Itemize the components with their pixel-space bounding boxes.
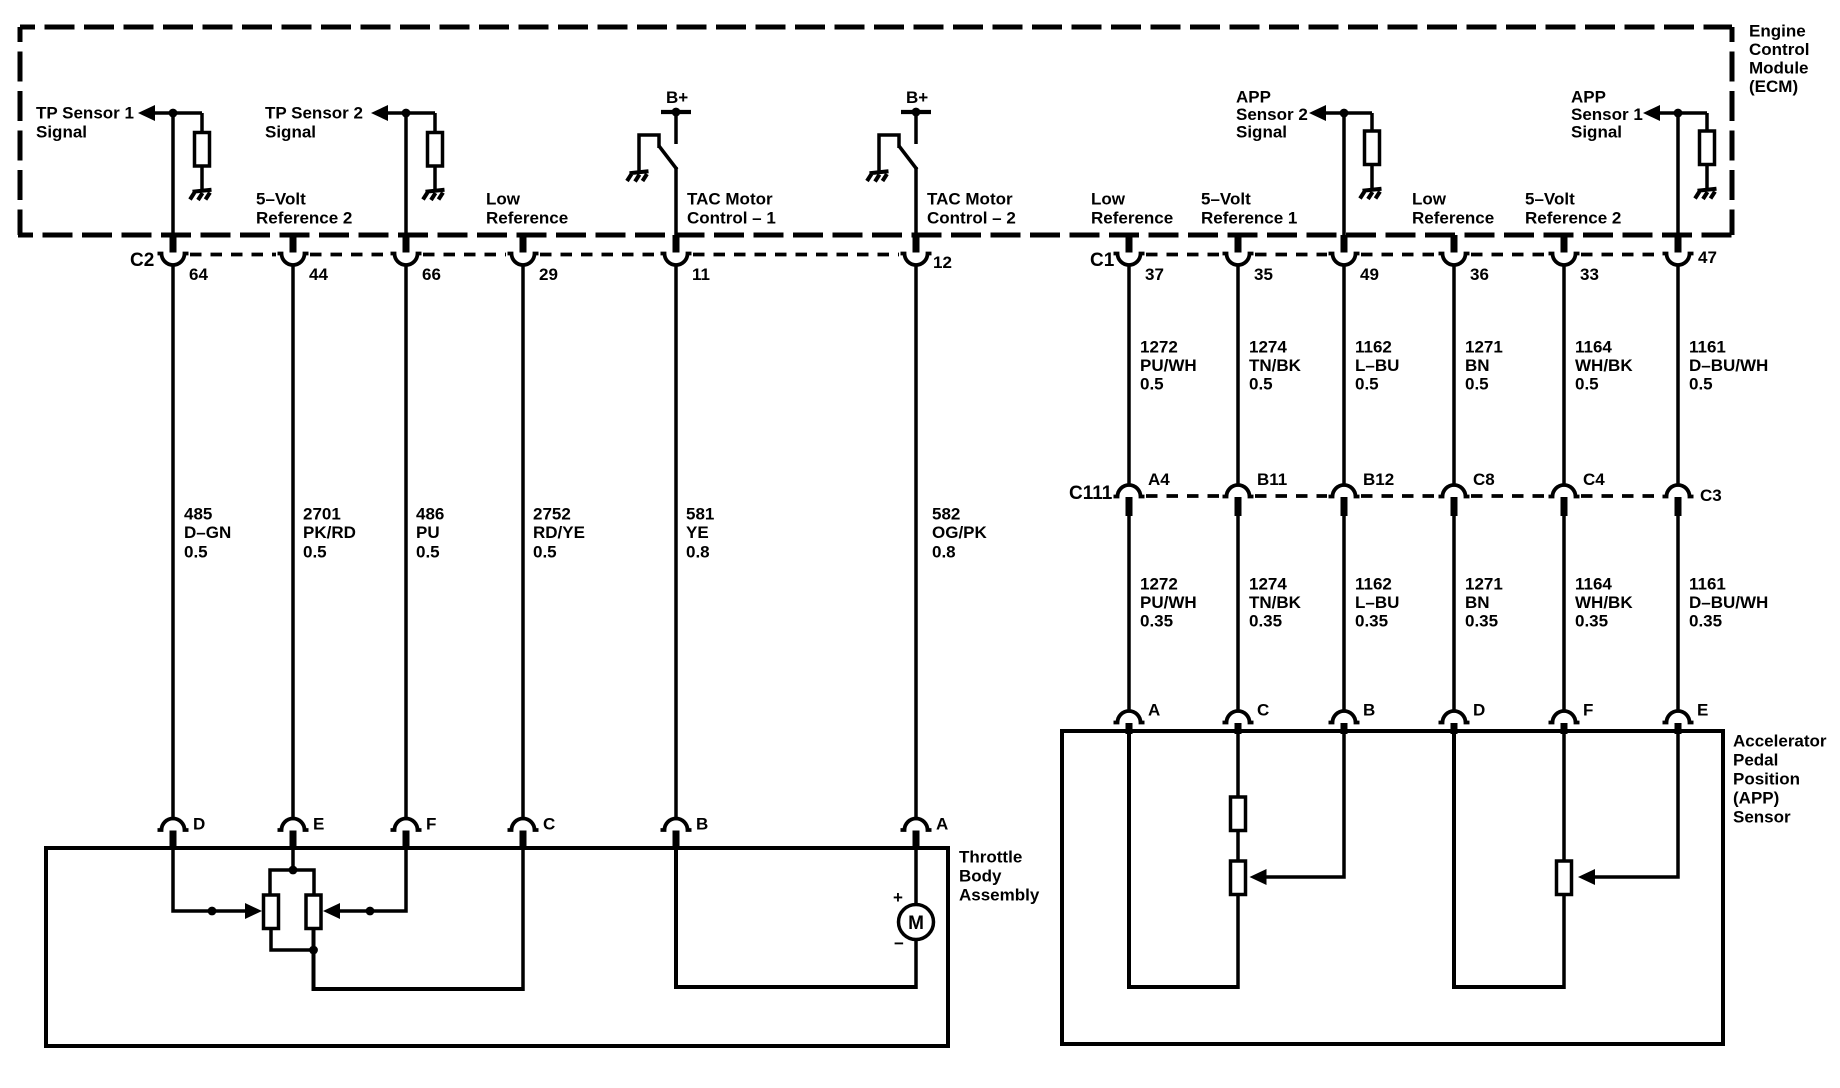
- connector C111 terminal stub pin B11: [1235, 497, 1242, 516]
- value label wire 581 YE: [686, 505, 714, 562]
- wire APP2 signal horizontal: [1326, 111, 1372, 115]
- svg-text:Sensor 1: Sensor 1: [1571, 105, 1643, 124]
- wire 582 OG/PK harness: [914, 264, 918, 820]
- wire APP track2 to bottom: [1562, 895, 1566, 990]
- throttle body terminal arc pin F: [391, 819, 422, 831]
- svg-text:+: +: [893, 888, 903, 907]
- svg-text:Reference: Reference: [1412, 209, 1494, 228]
- wire APP pin D to pot2 bottom: [1454, 733, 1564, 987]
- svg-text:B: B: [1363, 701, 1375, 720]
- value label wire 1162 L&#8211;BU 0.35: [1355, 575, 1399, 631]
- svg-text:F: F: [426, 815, 436, 834]
- wire connector C111 dotted harness segment 2: [1255, 494, 1327, 498]
- svg-text:0.35: 0.35: [1140, 612, 1173, 631]
- connector C2 terminal arc pin 44: [278, 254, 309, 266]
- wire APP1 resistor top bend: [1705, 113, 1709, 133]
- svg-text:Reference 2: Reference 2: [1525, 209, 1621, 228]
- wire connector C111 dotted harness segment 4: [1471, 494, 1547, 498]
- wire 1164 WH/BK lower harness: [1562, 515, 1566, 712]
- wire APP pin B to wiper: [1267, 733, 1345, 877]
- ground APP1: [1695, 189, 1717, 199]
- svg-text:TAC Motor: TAC Motor: [927, 190, 1013, 209]
- wire 1161 D-BU/WH upper harness: [1676, 264, 1680, 487]
- svg-text:(ECM): (ECM): [1749, 77, 1798, 96]
- wire switch 1 to ground: [639, 135, 659, 172]
- connector C2 terminal arc pin 66: [391, 254, 422, 266]
- label Accelerator Pedal Position (APP) Sensor: [1733, 732, 1827, 827]
- value label wire 2752 RD/YE: [533, 505, 585, 562]
- label APP Sensor 2 Signal: [1236, 88, 1308, 142]
- svg-text:0.5: 0.5: [416, 543, 440, 562]
- wire connector C2 dotted harness segment 4: [540, 253, 659, 257]
- value label wire 485 D&#8211;GN: [184, 505, 231, 562]
- svg-text:Signal: Signal: [265, 123, 316, 142]
- svg-text:BN: BN: [1465, 593, 1490, 612]
- throttle body terminal arc pin B: [661, 819, 692, 831]
- connector C111 terminal stub pin C8: [1451, 497, 1458, 516]
- label Engine Control Module (ECM): [1749, 22, 1809, 97]
- wire APP pin C down: [1236, 733, 1240, 798]
- resistor TP sensor 1 track: [264, 895, 279, 929]
- value label wire 1272 PU/WH 0.35: [1140, 575, 1197, 631]
- throttle body assembly box: [46, 848, 948, 1046]
- svg-text:B+: B+: [906, 88, 928, 107]
- wire connector C111 dotted harness segment 5: [1581, 494, 1661, 498]
- svg-text:F: F: [1583, 701, 1593, 720]
- svg-text:0.35: 0.35: [1355, 612, 1388, 631]
- svg-text:36: 36: [1470, 265, 1489, 284]
- svg-text:1161: 1161: [1689, 575, 1726, 594]
- svg-text:D–GN: D–GN: [184, 523, 231, 542]
- connector C1 terminal stub pin 35: [1235, 235, 1242, 253]
- connector C111 terminal stub pin C3: [1675, 497, 1682, 516]
- wire pot bottom to pin C: [314, 928, 524, 989]
- resistor APP sensor track 2: [1557, 861, 1572, 895]
- ground TAC driver 2: [867, 171, 889, 181]
- svg-text:RD/YE: RD/YE: [533, 523, 585, 542]
- svg-text:C111: C111: [1069, 483, 1113, 504]
- svg-text:0.5: 0.5: [1140, 375, 1164, 394]
- value label wire 1271 BN 0.5: [1465, 338, 1503, 394]
- ground TAC driver 1: [627, 171, 649, 181]
- connector C111 terminal stub pin B12: [1341, 497, 1348, 516]
- svg-text:Sensor 2: Sensor 2: [1236, 105, 1308, 124]
- svg-text:1272: 1272: [1140, 338, 1178, 357]
- wire pot top bracket: [270, 870, 314, 896]
- svg-text:581: 581: [686, 505, 714, 524]
- label 5-Volt Reference 1 (pin 35): [1201, 190, 1297, 228]
- wire APP1 signal horizontal: [1660, 111, 1707, 115]
- svg-text:1272: 1272: [1140, 575, 1178, 594]
- wire APP2 resistor to ground: [1370, 165, 1374, 191]
- node junction pot bottom: [309, 946, 318, 955]
- svg-text:Control: Control: [1749, 40, 1809, 59]
- resistor TP2 pull-down: [428, 133, 443, 167]
- wire between APP resistors: [1236, 831, 1240, 863]
- wire 1274 TN/BK upper harness: [1236, 264, 1240, 487]
- throttle body terminal stub pin A: [913, 831, 920, 851]
- svg-text:C3: C3: [1700, 486, 1722, 505]
- APP sensor terminal stub pin F: [1561, 723, 1568, 734]
- svg-text:−: −: [894, 934, 904, 953]
- svg-text:1164: 1164: [1575, 338, 1612, 357]
- value label wire 1272 PU/WH 0.5: [1140, 338, 1197, 394]
- wire pot bottom bracket: [271, 927, 314, 950]
- svg-text:5–Volt: 5–Volt: [1201, 190, 1251, 209]
- APP sensor terminal stub pin D: [1451, 723, 1458, 734]
- wire B+ stub 2: [914, 112, 918, 144]
- wire connector C2 dotted harness segment 3: [423, 253, 506, 257]
- node junction E pot top: [289, 866, 298, 875]
- connector C1 terminal stub pin 33: [1561, 235, 1568, 253]
- value label wire 2701 PK/RD: [303, 505, 356, 562]
- wire 581 inside ECM: [674, 167, 678, 236]
- wire connector C111 dotted harness segment 3: [1361, 494, 1437, 498]
- svg-text:49: 49: [1360, 265, 1379, 284]
- svg-text:APP: APP: [1571, 88, 1606, 107]
- svg-text:1271: 1271: [1465, 575, 1503, 594]
- svg-text:PU/WH: PU/WH: [1140, 593, 1197, 612]
- svg-text:0.5: 0.5: [1575, 375, 1599, 394]
- throttle body terminal stub pin D: [170, 831, 177, 851]
- svg-text:Reference 1: Reference 1: [1201, 209, 1297, 228]
- wire 1162 inside ECM: [1342, 113, 1346, 236]
- svg-text:A: A: [1148, 701, 1160, 720]
- svg-text:M: M: [908, 913, 924, 934]
- APP sensor terminal stub pin B: [1341, 723, 1348, 734]
- wire 1272 PU/WH lower harness: [1127, 515, 1131, 712]
- value label wire 582 OG/PK: [932, 505, 988, 562]
- svg-text:Low: Low: [486, 190, 521, 209]
- value label wire 1274 TN/BK 0.5: [1249, 338, 1302, 394]
- APP sensor terminal arc pin C: [1223, 711, 1254, 723]
- svg-text:Signal: Signal: [36, 123, 87, 142]
- svg-text:2701: 2701: [303, 505, 341, 524]
- wire APP1 resistor to ground: [1705, 165, 1709, 191]
- svg-text:0.5: 0.5: [1689, 375, 1713, 394]
- wire connector C1 dotted harness segment 5: [1581, 253, 1661, 257]
- svg-text:A4: A4: [1148, 470, 1170, 489]
- svg-text:66: 66: [422, 265, 441, 284]
- svg-text:C: C: [1257, 701, 1269, 720]
- node B+ dot 2: [912, 108, 921, 117]
- connector C2 terminal arc pin 64: [158, 254, 189, 265]
- wire 2701 PK/RD harness: [291, 264, 295, 820]
- svg-text:D–BU/WH: D–BU/WH: [1689, 593, 1768, 612]
- connector C2 terminal stub pin 64: [170, 235, 177, 253]
- svg-text:Body: Body: [959, 867, 1002, 886]
- svg-text:C2: C2: [130, 250, 154, 271]
- arrow APP Sensor 2 Signal: [1309, 105, 1326, 121]
- APP sensor terminal stub pin A: [1126, 723, 1133, 734]
- connector C1 terminal stub pin 37: [1126, 235, 1133, 253]
- wire 485 D-GN harness: [171, 264, 175, 820]
- svg-text:Low: Low: [1091, 190, 1126, 209]
- ECM box dashed bottom border: [18, 233, 1734, 238]
- svg-text:0.5: 0.5: [1249, 375, 1273, 394]
- connector C1 terminal arc pin 33: [1549, 254, 1580, 266]
- ECM box dashed left border: [18, 27, 23, 235]
- svg-text:2752: 2752: [533, 505, 571, 524]
- connector C2 terminal arc pin 11: [661, 254, 692, 266]
- resistor TP1 pull-down: [195, 133, 210, 167]
- svg-text:TP Sensor 1: TP Sensor 1: [36, 104, 134, 123]
- connector C111 terminal arc pin C8: [1439, 485, 1470, 497]
- node splice on F wiper wire: [366, 907, 375, 916]
- svg-text:L–BU: L–BU: [1355, 593, 1399, 612]
- svg-text:Sensor: Sensor: [1733, 808, 1791, 827]
- svg-text:(APP): (APP): [1733, 789, 1779, 808]
- svg-text:C: C: [543, 815, 555, 834]
- connector C111 terminal arc pin A4: [1114, 485, 1145, 497]
- label Low Reference (pin 36): [1412, 190, 1494, 228]
- APP sensor terminal arc pin B: [1329, 711, 1360, 723]
- wire TP2 resistor top bend: [433, 113, 437, 134]
- wire TP1 resistor top bend: [200, 113, 204, 134]
- label Throttle Body Assembly: [959, 848, 1040, 905]
- wire 581 YE harness: [674, 264, 678, 820]
- ground TP1: [190, 190, 212, 200]
- APP sensor terminal arc pin F: [1549, 711, 1580, 723]
- connector C111 terminal arc pin B11: [1223, 485, 1254, 497]
- throttle body terminal arc pin C: [508, 819, 539, 831]
- label 5-Volt Reference 2 (pin 33): [1525, 190, 1621, 228]
- svg-text:486: 486: [416, 505, 444, 524]
- wire throttle pin D to wiper arrow: [173, 850, 246, 911]
- throttle body terminal arc pin A: [901, 819, 932, 831]
- wire 485 inside ECM: [171, 113, 175, 236]
- svg-text:Position: Position: [1733, 770, 1800, 789]
- node junction APP1: [1674, 109, 1683, 118]
- switch TAC driver 2 arm: [899, 146, 917, 170]
- svg-text:Module: Module: [1749, 59, 1809, 78]
- wire motor to return: [914, 940, 918, 990]
- svg-text:C1: C1: [1090, 250, 1115, 271]
- wire APP2 resistor top bend: [1370, 113, 1374, 133]
- svg-text:35: 35: [1254, 265, 1273, 284]
- wire APP track1 to bottom: [1236, 895, 1240, 990]
- connector C111 terminal arc pin C4: [1549, 485, 1580, 497]
- svg-text:TAC Motor: TAC Motor: [687, 190, 773, 209]
- resistor APP1 pull-down: [1700, 131, 1715, 165]
- value label wire 1162 L&#8211;BU 0.5: [1355, 338, 1399, 394]
- resistor APP2 pull-down: [1365, 131, 1380, 165]
- svg-text:PK/RD: PK/RD: [303, 523, 356, 542]
- wire APP pin E to wiper: [1595, 733, 1678, 877]
- svg-text:1271: 1271: [1465, 338, 1503, 357]
- arrow TP Sensor 1 Signal: [138, 105, 155, 121]
- throttle body terminal stub pin E: [290, 831, 297, 851]
- arrow TP1 wiper: [245, 903, 262, 919]
- label APP Sensor 1 Signal: [1571, 88, 1643, 142]
- svg-text:582: 582: [932, 505, 960, 524]
- svg-text:TN/BK: TN/BK: [1249, 356, 1302, 375]
- throttle body terminal stub pin F: [403, 831, 410, 851]
- svg-text:485: 485: [184, 505, 212, 524]
- arrow APP Sensor 1 Signal: [1643, 105, 1660, 121]
- connector C111 terminal stub pin C4: [1561, 497, 1568, 516]
- wire connector C1 dotted harness segment 4: [1471, 253, 1547, 257]
- svg-text:TP Sensor 2: TP Sensor 2: [265, 104, 363, 123]
- svg-text:44: 44: [309, 265, 328, 284]
- svg-text:Low: Low: [1412, 190, 1447, 209]
- node junction TP2: [402, 109, 411, 118]
- wire APP pin F down: [1562, 733, 1566, 862]
- svg-text:B+: B+: [666, 88, 688, 107]
- svg-text:Control – 2: Control – 2: [927, 209, 1016, 228]
- connector C111 terminal arc pin C3: [1663, 485, 1694, 497]
- wire throttle pin B to motor return: [676, 850, 916, 987]
- arrow TP2 wiper: [323, 903, 340, 919]
- value label wire 1164 WH/BK 0.35: [1575, 575, 1633, 631]
- svg-text:E: E: [313, 815, 324, 834]
- ECM box dashed top border: [20, 25, 1732, 30]
- wire 1162 L-BU upper harness: [1342, 264, 1346, 487]
- svg-text:37: 37: [1145, 265, 1164, 284]
- svg-text:BN: BN: [1465, 356, 1490, 375]
- svg-text:Reference: Reference: [486, 209, 568, 228]
- svg-text:YE: YE: [686, 523, 709, 542]
- svg-text:29: 29: [539, 265, 558, 284]
- throttle body terminal stub pin C: [520, 831, 527, 851]
- arrow APP wiper 2: [1578, 869, 1595, 885]
- svg-text:1162: 1162: [1355, 575, 1392, 594]
- wire 486 inside ECM: [404, 113, 408, 236]
- label TAC Motor Control - 1: [687, 190, 776, 228]
- wire throttle pin E to pot top: [291, 850, 295, 870]
- accelerator pedal position sensor box: [1062, 731, 1723, 1044]
- svg-text:0.8: 0.8: [932, 543, 956, 562]
- svg-text:Engine: Engine: [1749, 22, 1806, 41]
- ECM box dashed right border: [1730, 27, 1735, 235]
- wire APP pin A to pot bottom: [1129, 733, 1238, 987]
- connector C111 terminal arc pin B12: [1329, 485, 1360, 497]
- svg-text:0.5: 0.5: [1355, 375, 1379, 394]
- value label wire 1271 BN 0.35: [1465, 575, 1503, 631]
- svg-text:D: D: [193, 815, 205, 834]
- power B+ bar 2: [901, 110, 931, 114]
- svg-text:Reference 2: Reference 2: [256, 209, 352, 228]
- connector C1 terminal stub pin 47: [1675, 235, 1682, 253]
- svg-text:E: E: [1697, 701, 1708, 720]
- label Low Reference (pin 37): [1091, 190, 1173, 228]
- APP sensor terminal stub pin C: [1235, 723, 1242, 734]
- connector C1 terminal stub pin 36: [1451, 235, 1458, 253]
- svg-text:1274: 1274: [1249, 575, 1287, 594]
- svg-text:0.5: 0.5: [533, 543, 557, 562]
- resistor APP sensor fixed: [1231, 797, 1246, 831]
- connector C2 terminal stub pin 29: [520, 235, 527, 253]
- svg-text:1274: 1274: [1249, 338, 1287, 357]
- svg-text:33: 33: [1580, 265, 1599, 284]
- throttle body terminal arc pin E: [278, 819, 309, 831]
- wire 1274 TN/BK lower harness: [1236, 515, 1240, 712]
- label TP Sensor 1 Signal: [36, 104, 134, 142]
- svg-text:B12: B12: [1363, 470, 1394, 489]
- connector C2 terminal stub pin 44: [290, 235, 297, 253]
- power B+ bar 1: [661, 110, 691, 114]
- APP sensor terminal arc pin A: [1114, 711, 1145, 723]
- svg-text:Accelerator: Accelerator: [1733, 732, 1827, 751]
- node B+ dot 1: [672, 108, 681, 117]
- wire connector C1 dotted harness segment 3: [1361, 253, 1437, 257]
- switch TAC driver 1 arm: [659, 146, 677, 170]
- connector C1 terminal stub pin 49: [1341, 235, 1348, 253]
- connector C2 terminal stub pin 66: [403, 235, 410, 253]
- svg-text:B: B: [696, 815, 708, 834]
- connector C1 terminal arc pin 35: [1223, 254, 1254, 266]
- wire switch 2 to ground: [879, 135, 899, 172]
- wire TP Sensor 1 signal horizontal: [155, 111, 202, 115]
- svg-text:0.5: 0.5: [303, 543, 327, 562]
- svg-text:APP: APP: [1236, 88, 1271, 107]
- throttle body terminal stub pin B: [673, 831, 680, 851]
- svg-text:0.35: 0.35: [1689, 612, 1722, 631]
- svg-text:PU: PU: [416, 523, 440, 542]
- connector C2 terminal stub pin 11: [673, 235, 680, 253]
- wire connector C1 dotted harness segment 1: [1146, 253, 1221, 257]
- wire throttle pin F to wiper arrow: [340, 850, 406, 911]
- wire 1161 D-BU/WH lower harness: [1676, 515, 1680, 712]
- value label wire 486 PU: [416, 505, 444, 562]
- label TAC Motor Control - 2: [927, 190, 1016, 228]
- wire connector C111 dotted harness segment 1: [1146, 494, 1221, 498]
- wire 486 PU harness: [404, 264, 408, 820]
- resistor TP sensor 2 track: [306, 895, 321, 929]
- wire TP2 resistor to ground: [433, 166, 437, 191]
- wire 1272 PU/WH upper harness: [1127, 264, 1131, 487]
- svg-text:0.35: 0.35: [1249, 612, 1282, 631]
- svg-text:TN/BK: TN/BK: [1249, 593, 1302, 612]
- wire 1161 inside ECM: [1676, 113, 1680, 236]
- wire 2752 RD/YE harness: [521, 264, 525, 820]
- connector C2 terminal stub pin 12: [913, 235, 920, 253]
- APP sensor terminal stub pin E: [1675, 723, 1682, 734]
- wire connector C2 dotted harness segment 5: [693, 253, 899, 257]
- node splice on D wiper wire: [208, 907, 217, 916]
- svg-text:64: 64: [189, 265, 208, 284]
- connector C1 terminal arc pin 49: [1329, 254, 1360, 266]
- value label wire 1161 D&#8211;BU/WH 0.35: [1689, 575, 1768, 631]
- wire throttle pin A to motor: [914, 850, 918, 905]
- svg-text:1162: 1162: [1355, 338, 1392, 357]
- svg-text:Pedal: Pedal: [1733, 751, 1778, 770]
- svg-text:WH/BK: WH/BK: [1575, 356, 1633, 375]
- svg-text:5–Volt: 5–Volt: [1525, 190, 1575, 209]
- wire TP Sensor 2 signal horizontal: [388, 111, 435, 115]
- connector C1 terminal arc pin 36: [1439, 254, 1470, 266]
- svg-text:OG/PK: OG/PK: [932, 523, 988, 542]
- svg-text:0.5: 0.5: [1465, 375, 1489, 394]
- ground TP2: [423, 190, 445, 200]
- label 5-Volt Reference 2 (pin 44): [256, 190, 352, 228]
- svg-text:D: D: [1473, 701, 1485, 720]
- wire connector C1 dotted harness segment 2: [1255, 253, 1327, 257]
- wire 1162 L-BU lower harness: [1342, 515, 1346, 712]
- svg-text:0.5: 0.5: [184, 543, 208, 562]
- svg-text:47: 47: [1698, 248, 1717, 267]
- value label wire 1164 WH/BK 0.5: [1575, 338, 1633, 394]
- connector C1 terminal arc pin 47: [1663, 254, 1694, 266]
- svg-text:11: 11: [692, 265, 710, 284]
- wire throttle pin C down: [521, 850, 525, 991]
- svg-text:WH/BK: WH/BK: [1575, 593, 1633, 612]
- svg-text:Signal: Signal: [1571, 123, 1622, 142]
- svg-text:C8: C8: [1473, 470, 1495, 489]
- wire TP1 resistor to ground: [200, 166, 204, 191]
- arrow TP Sensor 2 Signal: [371, 105, 388, 121]
- svg-text:C4: C4: [1583, 470, 1605, 489]
